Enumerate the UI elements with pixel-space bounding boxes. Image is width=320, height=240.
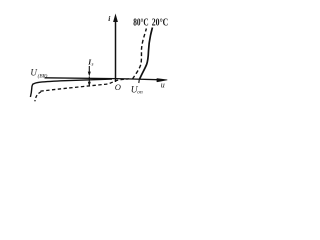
- svg-text:20°C: 20°C: [152, 18, 169, 29]
- u axis arrowhead: [157, 79, 167, 82]
- svg-text:(BR): (BR): [38, 72, 48, 79]
- breakdown knee 20°C (solid drop at U_BR): [30, 84, 33, 97]
- svg-text:on: on: [137, 89, 143, 95]
- forward curve 80°C (dashed): [133, 29, 147, 80]
- svg-text:O: O: [115, 82, 121, 92]
- I_s upper arrow (down to axis): [88, 66, 91, 77]
- i axis (vertical): [113, 14, 118, 83]
- svg-text:s: s: [92, 63, 94, 68]
- svg-text:u: u: [161, 80, 165, 89]
- U_on tick on axis: [138, 80, 141, 84]
- reverse line 80°C (dashed, larger saturation current): [41, 79, 130, 91]
- forward curve 20°C (solid): [140, 28, 153, 80]
- reverse line 20°C (solid, small saturation current): [33, 79, 112, 84]
- svg-text:i: i: [108, 14, 111, 23]
- I_s lower arrow (down to 80°C dashed line): [88, 77, 90, 83]
- svg-text:U: U: [30, 68, 37, 78]
- svg-text:80°C: 80°C: [133, 18, 149, 29]
- u axis (horizontal): [45, 78, 158, 80]
- breakdown knee 80°C (dashed drop): [35, 92, 41, 102]
